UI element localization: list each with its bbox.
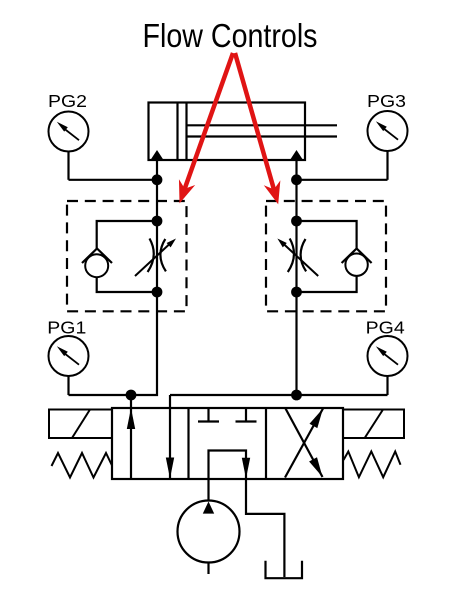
wire: valve A drop — [130, 395, 132, 408]
wire: PG3 to node B1 — [297, 179, 388, 181]
spring right — [344, 452, 401, 478]
pump P1 — [178, 501, 240, 563]
throttle valve FC2 adjust arrow — [284, 245, 318, 277]
valve V1 body — [112, 408, 343, 479]
valve V1 left position B-T arrow — [169, 408, 171, 479]
check valve CV1 ball — [85, 254, 108, 277]
throttle valve FC2 main line — [295, 221, 297, 292]
svg-text:PG3: PG3 — [367, 91, 406, 111]
node B1 junction dot — [291, 174, 302, 185]
wire: pump suction stub — [207, 563, 209, 575]
flow control enclosure FC1 (dashed) — [67, 201, 187, 311]
node FC1 top junction dot — [152, 216, 163, 227]
tank T1 — [266, 561, 303, 578]
valve V1 divider 2 — [265, 408, 267, 479]
valve V1 divider 1 — [187, 408, 189, 479]
valve V1 center blocked port A — [198, 408, 219, 422]
check valve CV2 ball — [345, 254, 367, 276]
wire: FC2 bypass branch — [297, 221, 357, 292]
valve V1 right position crossed arrow 1 — [285, 409, 323, 478]
callout arrow left (red) — [180, 53, 234, 202]
gauge PG3 — [367, 91, 408, 180]
solenoid SOL-a — [49, 410, 112, 439]
gauge PG4 — [366, 317, 408, 395]
wire: valve P to pump — [207, 479, 209, 501]
gauge PG2 — [48, 91, 89, 180]
valve V1 right position crossed arrow 2 — [286, 409, 323, 478]
solenoid SOL-b — [343, 410, 404, 439]
spring left — [52, 453, 113, 478]
cylinder C1 rod — [187, 124, 338, 126]
wire: PG2 to node A1 — [69, 179, 158, 181]
node A2 junction dot — [126, 390, 137, 401]
valve V1 left position P-A arrow — [130, 408, 132, 479]
wire: cylinder left port to node A1 — [156, 160, 158, 221]
wire: FC2 to valve B port — [170, 292, 388, 395]
gauge PG1 — [47, 317, 88, 395]
throttle valve FC2 arcs — [288, 239, 306, 273]
wire: FC1 bypass branch — [97, 221, 157, 292]
cylinder port arrow right — [290, 150, 303, 160]
wire: cylinder right port to node B1 — [295, 160, 297, 221]
cylinder C1 body — [149, 103, 306, 161]
throttle valve FC1 main line — [156, 221, 158, 292]
throttle valve FC1 adjust arrow — [135, 245, 169, 277]
cylinder C1 piston — [176, 103, 178, 161]
node FC2 bottom junction dot — [291, 287, 302, 298]
callout arrow right (red) — [235, 53, 280, 203]
wire: valve B drop — [169, 395, 171, 408]
svg-text:PG2: PG2 — [48, 91, 87, 111]
check valve CV1 seat — [82, 249, 112, 264]
cylinder port arrow left — [150, 150, 163, 160]
node B2 junction dot — [291, 390, 302, 401]
valve V1 center P-T path — [209, 451, 247, 480]
node FC2 top junction dot — [291, 216, 302, 227]
svg-text:PG4: PG4 — [366, 317, 405, 337]
valve V1 center blocked port B — [236, 408, 257, 422]
node A1 junction dot — [152, 174, 163, 185]
svg-text:Flow Controls: Flow Controls — [143, 17, 318, 54]
flow control enclosure FC2 (dashed) — [266, 201, 386, 311]
check valve CV2 seat — [342, 249, 372, 264]
throttle valve FC1 arcs — [148, 239, 166, 273]
wire: FC1 to valve A port — [69, 292, 158, 395]
node FC1 bottom junction dot — [152, 287, 163, 298]
wire: valve T to tank — [246, 479, 284, 577]
svg-text:PG1: PG1 — [47, 317, 86, 337]
